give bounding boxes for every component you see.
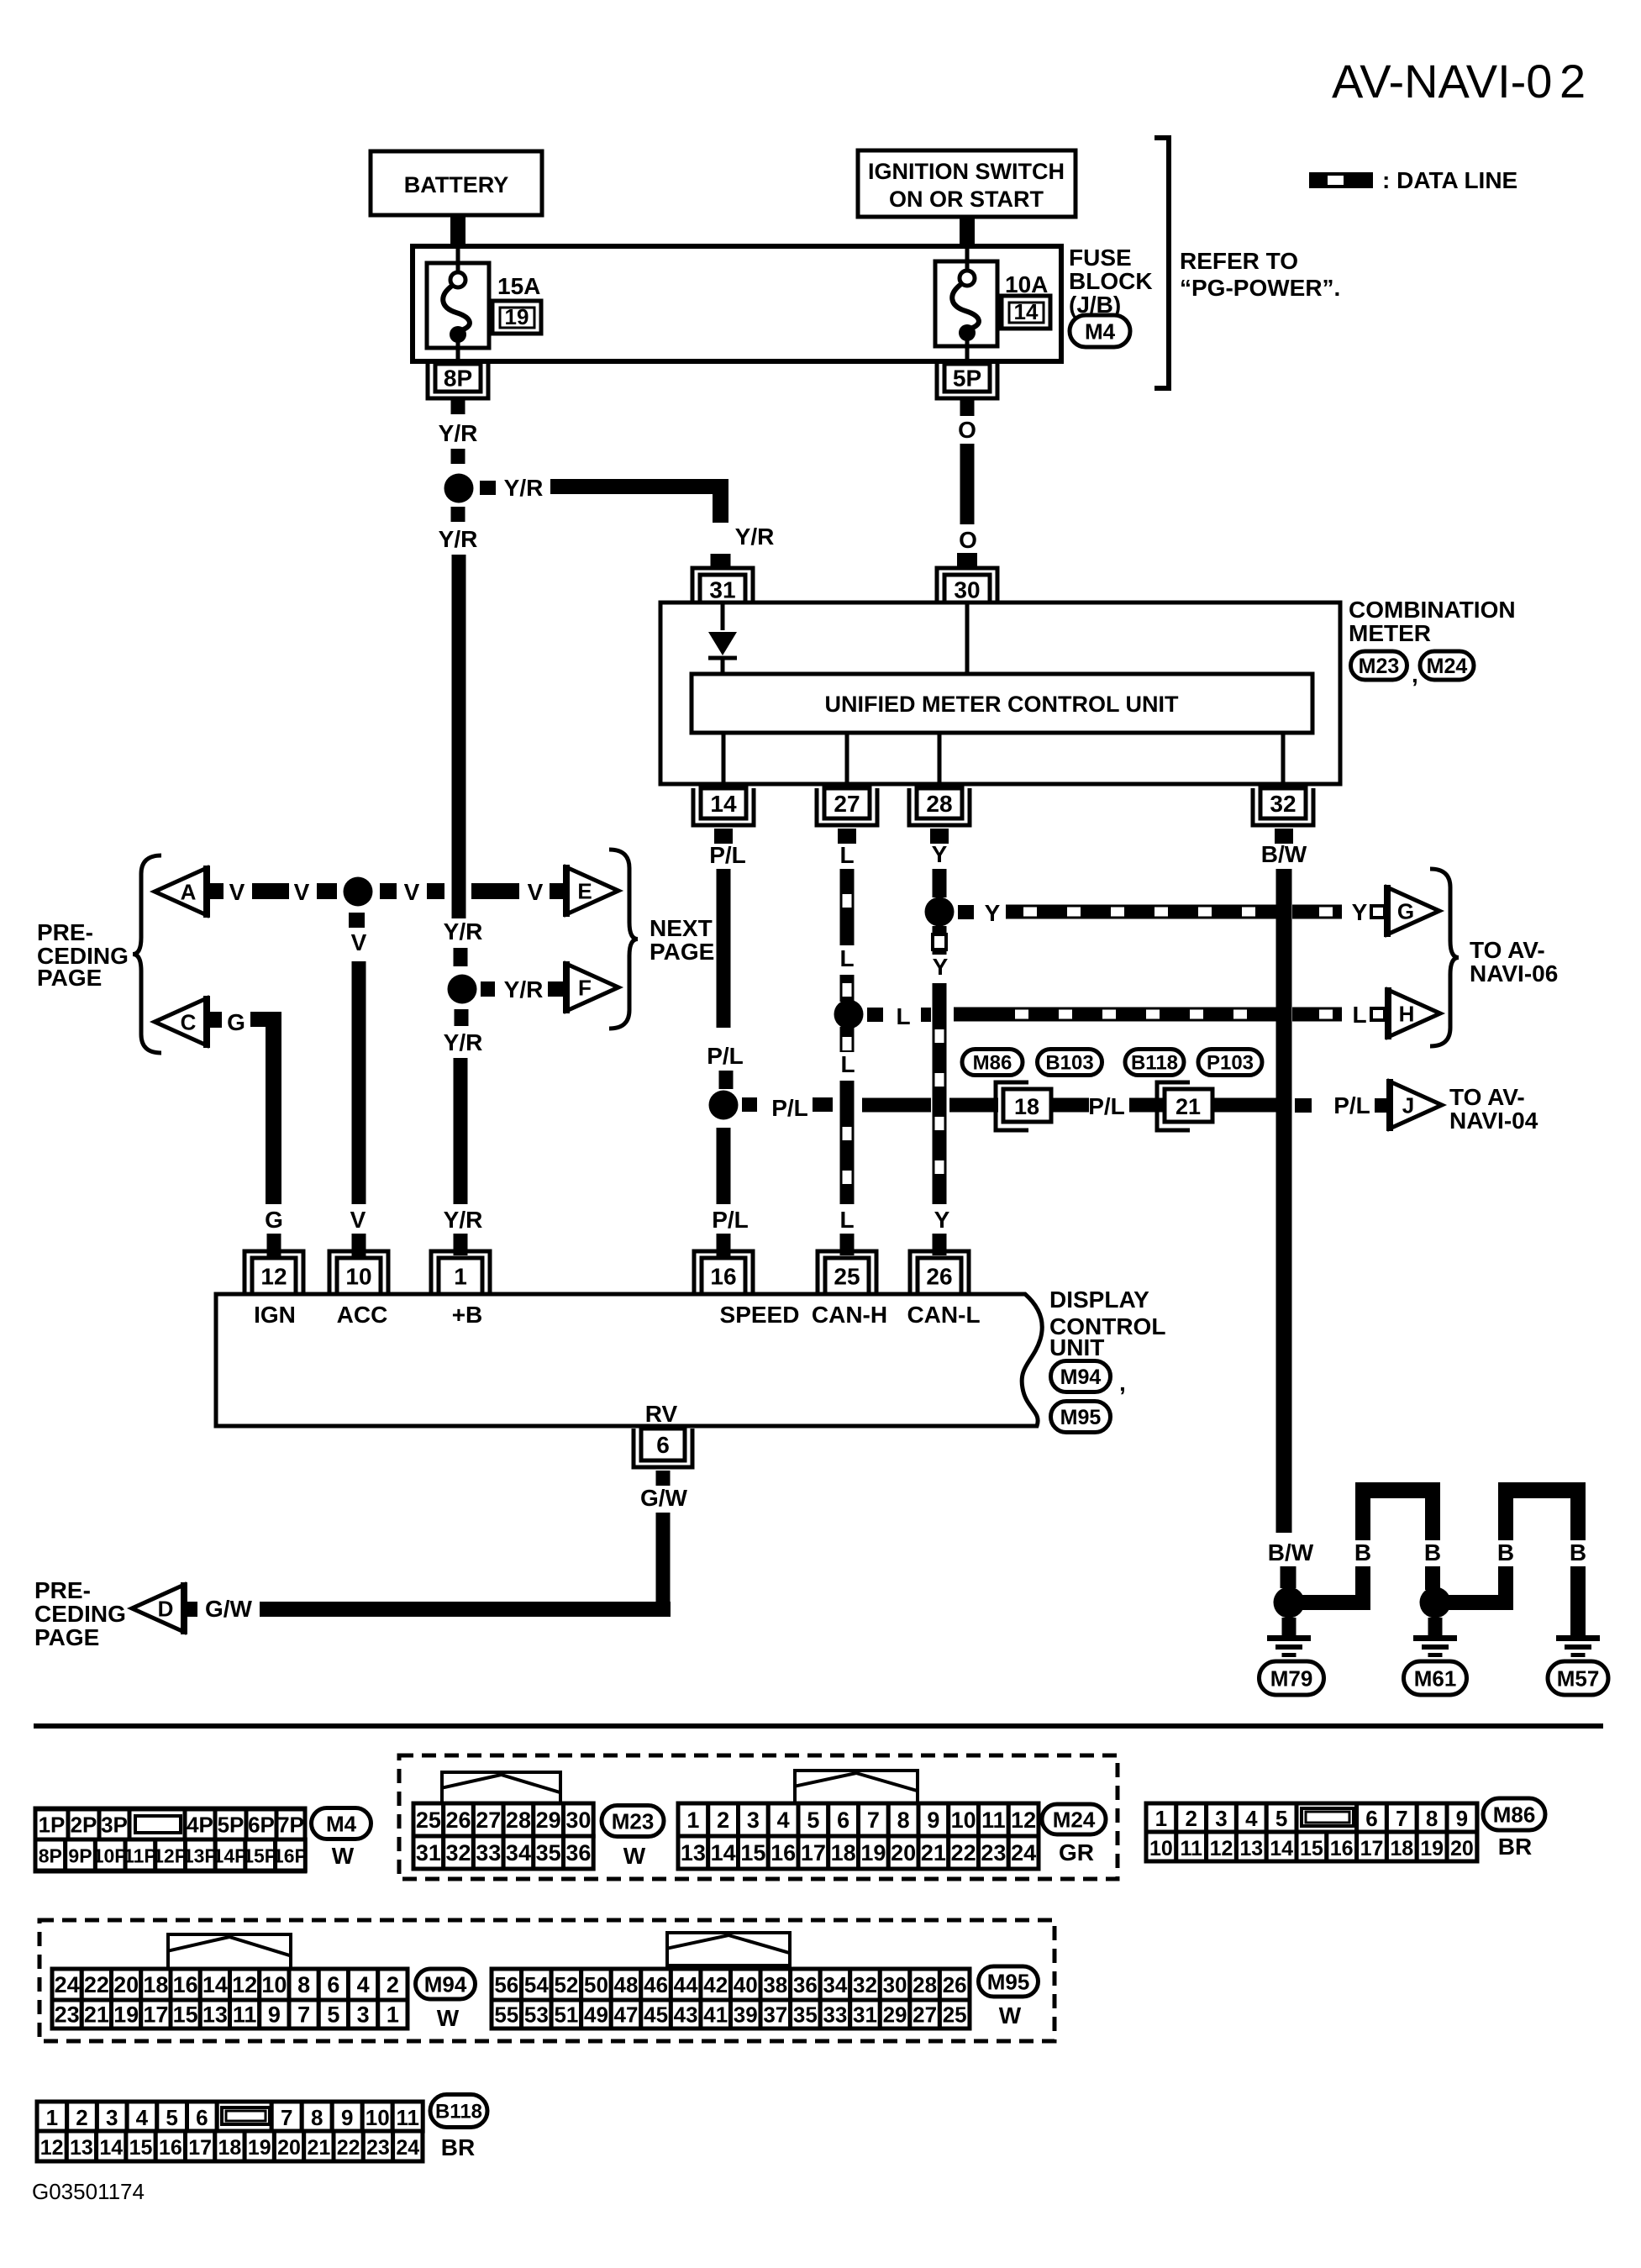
node arrow F to next page <box>566 961 618 1013</box>
svg-text:B: B <box>1570 1539 1586 1565</box>
svg-text:M94: M94 <box>1060 1366 1102 1389</box>
svg-text:16: 16 <box>771 1840 796 1865</box>
svg-text:52: 52 <box>554 1972 578 1997</box>
wire Y/R from 8P (battery feed) <box>451 400 465 414</box>
svg-text:20: 20 <box>1450 1837 1474 1860</box>
wire label L <box>840 1051 855 1077</box>
wire Y/R dash right of splice 1 <box>480 481 496 495</box>
svg-text:IGNITION SWITCH: IGNITION SWITCH <box>868 159 1065 184</box>
svg-text:5P: 5P <box>953 366 981 392</box>
svg-text:30: 30 <box>883 1972 907 1997</box>
wire label L <box>839 945 854 971</box>
node connector table M23 <box>413 1772 593 1869</box>
node label PRECEDING PAGE (top) <box>37 919 129 991</box>
wire label V <box>351 929 367 955</box>
svg-text:21: 21 <box>921 1840 946 1865</box>
junction Y/R splice 2 <box>448 975 477 1004</box>
svg-text:Y/R: Y/R <box>439 420 478 446</box>
svg-text:V: V <box>528 879 544 905</box>
svg-text:14: 14 <box>1014 299 1039 324</box>
svg-text:10P: 10P <box>93 1845 128 1867</box>
wire label P/L <box>1088 1093 1125 1119</box>
ground symbol M57 <box>1556 1635 1600 1657</box>
svg-text:B118: B118 <box>1131 1052 1178 1075</box>
node connector M95 table oval <box>979 1966 1039 2029</box>
wire pin 30 into unified meter control unit <box>965 604 970 674</box>
svg-text:6: 6 <box>656 1432 670 1458</box>
svg-text:REFER TO: REFER TO <box>1180 248 1298 274</box>
node brace preceding page <box>133 855 161 1053</box>
svg-text:E: E <box>577 878 592 903</box>
wire L data line from pin 27 <box>840 869 855 945</box>
svg-text:12: 12 <box>40 2136 64 2160</box>
svg-text:J: J <box>1402 1092 1414 1118</box>
svg-text:M23: M23 <box>612 1808 655 1834</box>
wire P/L segment <box>1129 1098 1165 1113</box>
diode D1 in combination meter <box>708 632 737 674</box>
wire L data line to CAN-H <box>840 1081 855 1204</box>
wire stub splice 1 to ground <box>1282 1618 1296 1635</box>
wire Y/R dash <box>454 948 468 966</box>
node dashed box M94 M95 <box>39 1920 1055 2041</box>
svg-text:25: 25 <box>943 2002 967 2027</box>
svg-text:8: 8 <box>1426 1806 1438 1831</box>
wire P/L dash <box>813 1097 833 1112</box>
svg-text:UNIFIED METER CONTROL UNIT: UNIFIED METER CONTROL UNIT <box>825 692 1179 717</box>
value label 10A <box>1005 271 1048 297</box>
svg-text:42: 42 <box>703 1972 728 1997</box>
svg-text:7: 7 <box>281 2105 292 2130</box>
svg-text:UNIT: UNIT <box>1049 1334 1104 1360</box>
wire label L <box>839 1207 854 1233</box>
node combination meter box <box>660 603 1340 784</box>
svg-text:M24: M24 <box>1053 1807 1096 1832</box>
svg-text:16P: 16P <box>273 1845 308 1867</box>
svg-text:G: G <box>1397 898 1414 924</box>
wire B leg to splice 2 <box>1425 1566 1440 1590</box>
wire P/L stub below pin 14 <box>714 829 733 844</box>
wire B from splice 1 to first loop <box>1302 1595 1363 1610</box>
wire label P/L <box>709 842 746 868</box>
node connector pin 16 <box>694 1251 753 1294</box>
svg-text:CAN-H: CAN-H <box>812 1302 887 1328</box>
wire G/W run and corner <box>260 1513 671 1617</box>
wire label V <box>404 879 420 905</box>
svg-text:Y/R: Y/R <box>444 1207 483 1233</box>
svg-text:FUSE: FUSE <box>1069 245 1132 271</box>
svg-text:6: 6 <box>837 1808 849 1833</box>
wire Y/R stub to arrow F <box>548 981 563 997</box>
node connector M94 oval <box>1051 1361 1126 1397</box>
wire B inverted-U loop 2 <box>1498 1482 1586 1540</box>
wire UMCU output at x=1008 <box>845 733 849 784</box>
node connector pin 6 <box>634 1429 692 1467</box>
svg-text:21: 21 <box>1176 1094 1201 1119</box>
svg-text:2: 2 <box>1559 55 1586 108</box>
svg-text:15: 15 <box>740 1840 765 1865</box>
svg-text:29: 29 <box>883 2002 907 2027</box>
svg-text:19: 19 <box>248 2136 271 2160</box>
svg-text:22: 22 <box>951 1840 976 1865</box>
svg-text:G: G <box>265 1207 283 1233</box>
svg-text:M86: M86 <box>973 1052 1012 1075</box>
svg-text:10: 10 <box>345 1264 371 1290</box>
wire B/W from pin 32 to grounds <box>1276 869 1292 1533</box>
svg-text:Y: Y <box>932 841 948 867</box>
wire V dash <box>427 883 444 899</box>
svg-text:25: 25 <box>834 1264 860 1290</box>
wire B/W stub below pin 32 <box>1275 829 1293 844</box>
svg-text:M24: M24 <box>1427 655 1468 678</box>
node display control unit box <box>216 1294 1042 1426</box>
node connector M24 table oval <box>1042 1804 1106 1865</box>
svg-text:48: 48 <box>614 1972 639 1997</box>
fuse F14 10A <box>935 249 997 364</box>
svg-text:30: 30 <box>565 1808 591 1833</box>
svg-text:B: B <box>1354 1539 1371 1565</box>
svg-text:M95: M95 <box>987 1969 1030 1994</box>
wire B/W stub <box>1281 1566 1296 1588</box>
wire label G/W <box>205 1596 253 1622</box>
wire P/L stub to pin 16 <box>717 1234 731 1258</box>
svg-text:Y: Y <box>933 954 949 980</box>
wire Y/R dash right of splice 2 <box>481 981 495 997</box>
wire L dash right of splice <box>867 1008 883 1022</box>
wire G corner to IGN <box>250 1012 281 1204</box>
wire label V <box>350 1207 366 1233</box>
wire Y data line to CAN-L <box>933 983 947 1204</box>
svg-text:45: 45 <box>644 2002 668 2027</box>
svg-text:10: 10 <box>951 1808 976 1833</box>
node connector pin 25 <box>818 1251 876 1294</box>
svg-text:3: 3 <box>1215 1806 1227 1831</box>
svg-text:A: A <box>181 879 197 904</box>
svg-text:9: 9 <box>1456 1806 1468 1831</box>
svg-text:14: 14 <box>202 1972 228 1997</box>
wire L stub to pin 25 <box>840 1234 855 1255</box>
svg-text:L: L <box>896 1003 910 1029</box>
svg-text:20: 20 <box>277 2136 301 2160</box>
svg-text:P103: P103 <box>1207 1052 1254 1075</box>
fuse F19 15A <box>427 249 489 364</box>
wire label L <box>896 1003 910 1029</box>
svg-text:5: 5 <box>807 1808 819 1833</box>
wire P/L segment <box>949 1098 998 1113</box>
svg-text:G/W: G/W <box>640 1485 688 1511</box>
wire ignition switch to fuse block <box>960 217 975 250</box>
svg-text:14: 14 <box>711 1840 736 1865</box>
svg-text:CEDING: CEDING <box>34 1601 126 1627</box>
svg-text:V: V <box>229 879 245 905</box>
node connector pin 32 <box>1253 788 1313 825</box>
svg-text:Y/R: Y/R <box>504 475 544 501</box>
svg-text:40: 40 <box>734 1972 758 1997</box>
svg-text:8: 8 <box>897 1808 910 1833</box>
svg-text:5: 5 <box>166 2105 177 2130</box>
svg-text:CAN-L: CAN-L <box>907 1302 980 1328</box>
svg-text:H: H <box>1399 1001 1415 1026</box>
svg-text:PAGE: PAGE <box>650 939 714 965</box>
svg-text:B/W: B/W <box>1268 1539 1314 1565</box>
node combination meter label <box>1349 597 1516 646</box>
svg-text:20: 20 <box>891 1840 916 1865</box>
node ignition switch ON OR START <box>858 150 1076 217</box>
svg-text:50: 50 <box>584 1972 608 1997</box>
svg-text:Y: Y <box>934 1207 950 1233</box>
svg-text:47: 47 <box>614 2002 639 2027</box>
wire label B/W <box>1268 1539 1314 1565</box>
svg-text:V: V <box>350 1207 366 1233</box>
node connector 5P <box>937 364 997 398</box>
node arrow E to next page <box>566 865 618 917</box>
svg-text:36: 36 <box>793 1972 818 1997</box>
svg-text:: DATA LINE: : DATA LINE <box>1382 167 1517 193</box>
svg-text:ON OR START: ON OR START <box>889 187 1044 212</box>
svg-text:1: 1 <box>46 2105 58 2130</box>
ground symbol M61 <box>1413 1635 1457 1657</box>
wire label L <box>1352 1002 1366 1028</box>
node connector pin 10 <box>329 1251 388 1294</box>
wire Y/R stub to pin 31 <box>711 554 731 570</box>
node ground connector M57 <box>1548 1661 1608 1695</box>
svg-text:37: 37 <box>763 2002 787 2027</box>
svg-text:19: 19 <box>113 2002 139 2028</box>
svg-text:L: L <box>840 1051 855 1077</box>
svg-text:12: 12 <box>260 1264 287 1290</box>
svg-text:3: 3 <box>106 2105 118 2130</box>
node connector M86 oval <box>962 1050 1023 1076</box>
wire V dash <box>317 883 337 899</box>
svg-text:4P: 4P <box>187 1813 213 1838</box>
wire Y stub below pin 28 <box>930 829 949 844</box>
wire Y/R branch to combination meter pin 31 <box>550 479 728 523</box>
node arrow D to preceding page <box>132 1582 184 1634</box>
svg-text:19: 19 <box>1420 1837 1444 1860</box>
svg-text:,: , <box>1412 661 1418 687</box>
svg-text:P/L: P/L <box>1333 1092 1370 1118</box>
svg-text:3: 3 <box>747 1808 760 1833</box>
svg-text:M57: M57 <box>1557 1665 1600 1691</box>
node connector table M94 <box>52 1934 408 2029</box>
svg-text:15: 15 <box>129 2136 153 2160</box>
node inline connector 18 <box>996 1082 1051 1130</box>
wire label G <box>227 1009 245 1035</box>
svg-text:M79: M79 <box>1270 1665 1313 1691</box>
wire label Y <box>933 954 949 980</box>
node connector B103 oval <box>1038 1050 1102 1076</box>
svg-text:NEXT: NEXT <box>650 915 713 941</box>
svg-text:13: 13 <box>70 2136 93 2160</box>
wire Y dash below splice <box>933 926 947 955</box>
wire label B <box>1570 1539 1586 1565</box>
node document number G03501174 <box>32 2179 145 2204</box>
node fuse block J/B M4 <box>413 246 1061 361</box>
wire Y dash right of splice <box>958 905 974 919</box>
wire label P/L <box>712 1207 749 1233</box>
node connector pin 28 <box>909 788 970 825</box>
svg-text:31: 31 <box>416 1840 441 1865</box>
svg-text:26: 26 <box>926 1264 952 1290</box>
svg-text:4: 4 <box>777 1808 790 1833</box>
wire B leg to horizontal <box>1355 1566 1370 1610</box>
svg-text:30: 30 <box>954 577 980 603</box>
svg-text:15: 15 <box>1300 1837 1323 1860</box>
svg-text:Y/R: Y/R <box>735 524 775 550</box>
wire label Y/R <box>735 524 775 550</box>
wire Y open dash before arrow G <box>1371 906 1385 918</box>
svg-text:COMBINATION: COMBINATION <box>1349 597 1516 623</box>
svg-text:16: 16 <box>159 2136 182 2160</box>
svg-text:5P: 5P <box>218 1813 245 1838</box>
svg-text:13: 13 <box>202 2002 228 2028</box>
svg-text:17: 17 <box>1360 1837 1384 1860</box>
wire L stub below pin 27 <box>838 829 856 844</box>
node ground connector M79 <box>1260 1661 1324 1695</box>
node connector pin 26 <box>910 1251 969 1294</box>
svg-text:B103: B103 <box>1045 1052 1093 1075</box>
svg-text:18: 18 <box>1390 1837 1413 1860</box>
svg-text:M86: M86 <box>1493 1802 1536 1827</box>
wire L dash <box>840 975 855 1002</box>
svg-text:2: 2 <box>76 2105 87 2130</box>
wire P/L segment <box>1051 1098 1089 1113</box>
wire label Y <box>932 841 948 867</box>
svg-text:11: 11 <box>396 2105 419 2130</box>
svg-text:16: 16 <box>173 1972 198 1997</box>
wire label V <box>294 879 310 905</box>
svg-text:55: 55 <box>494 2002 518 2027</box>
node connector table B118 <box>37 2102 423 2161</box>
wire Y/R stub to pin 1 <box>454 1234 468 1255</box>
svg-text:32: 32 <box>1270 791 1296 817</box>
svg-text:15: 15 <box>173 2002 198 2028</box>
svg-text:W: W <box>437 2005 460 2031</box>
svg-text:11: 11 <box>1180 1837 1202 1860</box>
svg-text:16: 16 <box>710 1264 736 1290</box>
svg-text:16: 16 <box>1330 1837 1354 1860</box>
svg-text:AV-NAVI-0: AV-NAVI-0 <box>1332 55 1552 108</box>
node connector 8P <box>428 364 488 398</box>
node connector M23 oval <box>1351 651 1418 687</box>
node connector M4 oval <box>1070 315 1130 347</box>
svg-text:36: 36 <box>565 1840 591 1865</box>
svg-text:29: 29 <box>536 1808 561 1833</box>
svg-text:49: 49 <box>584 2002 608 2027</box>
wire label V <box>528 879 544 905</box>
node DATA LINE legend <box>1309 167 1517 193</box>
svg-text:24: 24 <box>1011 1840 1036 1865</box>
svg-text:Y/R: Y/R <box>444 918 483 945</box>
svg-text:43: 43 <box>674 2002 698 2027</box>
svg-text:Y/R: Y/R <box>504 976 544 1002</box>
svg-text:V: V <box>351 929 367 955</box>
node connector pin 31 <box>692 568 753 604</box>
svg-text:24: 24 <box>396 2136 419 2160</box>
wire label Y/R <box>444 918 483 945</box>
svg-text:6: 6 <box>1365 1806 1377 1831</box>
svg-text:10A: 10A <box>1005 271 1048 297</box>
svg-text:5: 5 <box>327 2002 339 2028</box>
svg-text:“PG-POWER”.: “PG-POWER”. <box>1180 275 1340 301</box>
node ground connector M61 <box>1404 1661 1467 1695</box>
svg-text:17: 17 <box>801 1840 826 1865</box>
node connector M94 table oval <box>416 1969 476 2031</box>
svg-text:27: 27 <box>834 791 860 817</box>
node connector M24 oval <box>1420 651 1474 680</box>
svg-text:31: 31 <box>853 2002 877 2027</box>
wire label Y/R <box>439 526 478 552</box>
svg-text:7: 7 <box>1396 1806 1407 1831</box>
svg-text:NAVI-06: NAVI-06 <box>1470 960 1558 987</box>
wire label B <box>1354 1539 1371 1565</box>
svg-text:1: 1 <box>387 2002 399 2028</box>
wire Y stub to pin 26 <box>933 1234 947 1255</box>
wire B leg to ground M57 <box>1570 1566 1586 1635</box>
svg-text:6: 6 <box>196 2105 208 2130</box>
svg-text:15A: 15A <box>497 273 540 299</box>
svg-text:8P: 8P <box>444 366 472 392</box>
svg-text:22: 22 <box>84 1972 109 1997</box>
svg-text:9: 9 <box>268 2002 281 2028</box>
svg-text:1P: 1P <box>39 1813 66 1838</box>
wire P/L segment <box>862 1098 931 1113</box>
wire label G <box>265 1207 283 1233</box>
svg-text:17: 17 <box>188 2136 212 2160</box>
wire V stub to pin 10 <box>352 1234 366 1258</box>
svg-text:11: 11 <box>981 1808 1006 1833</box>
wire label Y/R <box>444 1029 483 1055</box>
svg-text:19: 19 <box>505 304 529 329</box>
node connector pin 12 <box>245 1251 303 1294</box>
svg-text:22: 22 <box>337 2136 360 2160</box>
svg-text:O: O <box>959 527 977 553</box>
svg-text:2P: 2P <box>71 1813 97 1838</box>
svg-text:1: 1 <box>686 1808 699 1833</box>
wire P/L stub right of splice <box>742 1097 757 1112</box>
wire label Y/R <box>504 475 544 501</box>
svg-text:P/L: P/L <box>771 1095 808 1121</box>
node label PRECEDING PAGE (bottom) <box>34 1577 126 1650</box>
wire B inverted-U loop 1 <box>1355 1482 1440 1540</box>
junction Y splice <box>925 897 955 927</box>
node connector table M86 <box>1146 1803 1477 1861</box>
svg-text:14: 14 <box>99 2136 123 2160</box>
wire L data line branch to AV-NAVI-06 <box>954 1008 1342 1022</box>
wire V vertical run to ACC <box>352 961 366 1204</box>
svg-text:41: 41 <box>703 2002 728 2027</box>
node brace TO AV-NAVI-06 <box>1430 869 1558 1046</box>
svg-text:34: 34 <box>823 1972 847 1997</box>
wire UMCU output at x=1527 <box>1281 733 1286 784</box>
junction ground splice 1 <box>1274 1587 1305 1618</box>
svg-text:+B: +B <box>452 1302 483 1328</box>
svg-text:W: W <box>623 1843 646 1869</box>
wire L dash <box>840 1027 855 1052</box>
wire P/L run to SPEED <box>717 1128 731 1204</box>
svg-text:L: L <box>839 945 854 971</box>
svg-text:51: 51 <box>554 2002 578 2027</box>
svg-text:G03501174: G03501174 <box>32 2179 145 2204</box>
node connector P103 oval <box>1198 1050 1262 1076</box>
node connector table M95 <box>492 1933 970 2029</box>
wire label G/W <box>640 1485 688 1511</box>
node connector M4 table oval <box>312 1808 371 1870</box>
wire Y data line branch to AV-NAVI-06 <box>1006 905 1342 919</box>
svg-text:21: 21 <box>307 2136 330 2160</box>
node brace next page <box>609 850 714 1029</box>
svg-text:RV: RV <box>645 1401 678 1427</box>
svg-text:2: 2 <box>1185 1806 1197 1831</box>
